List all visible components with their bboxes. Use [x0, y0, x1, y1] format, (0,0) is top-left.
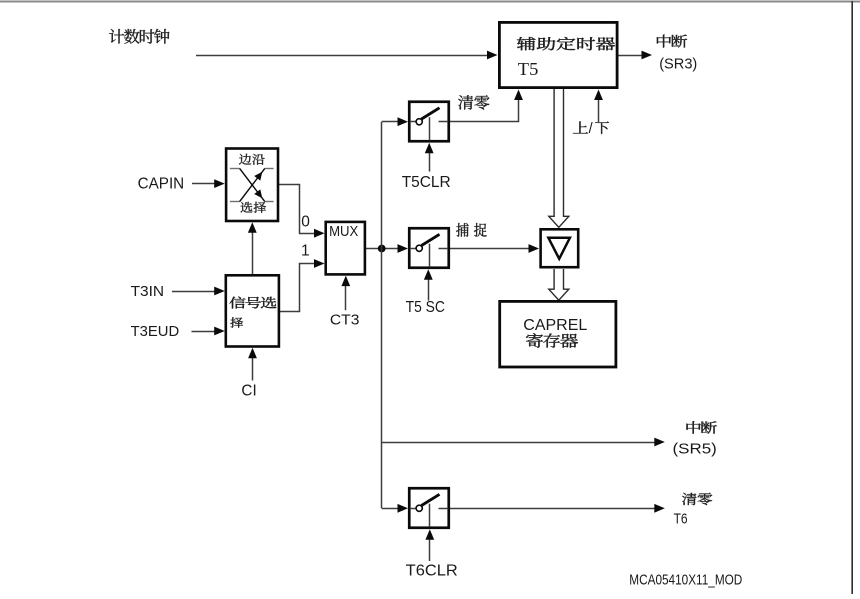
svg-text:T3IN: T3IN — [131, 283, 165, 300]
svg-text:0: 0 — [301, 213, 310, 230]
svg-text:(SR5): (SR5) — [673, 440, 717, 457]
svg-text:(SR3): (SR3) — [659, 55, 697, 72]
svg-text:CAPIN: CAPIN — [138, 176, 185, 193]
svg-text:1: 1 — [301, 243, 310, 260]
svg-text:T5 SC: T5 SC — [406, 299, 445, 316]
svg-text:T5: T5 — [518, 59, 539, 79]
svg-text:T6: T6 — [674, 511, 688, 528]
svg-text:MCA05410X11_MOD: MCA05410X11_MOD — [629, 571, 742, 588]
svg-text:CT3: CT3 — [330, 312, 360, 329]
svg-text:T6CLR: T6CLR — [406, 563, 458, 580]
svg-text:T5CLR: T5CLR — [402, 174, 451, 191]
svg-text:T3EUD: T3EUD — [131, 323, 180, 340]
svg-text:CI: CI — [241, 383, 256, 400]
svg-text:MUX: MUX — [329, 223, 358, 240]
svg-text:CAPREL: CAPREL — [523, 317, 587, 334]
